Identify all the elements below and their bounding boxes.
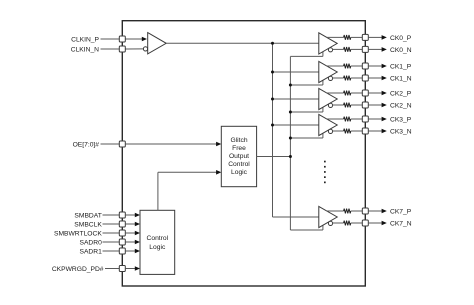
wire clock bus branch to CK3 buffer	[273, 124, 319, 126]
glitch-free output control logic block	[221, 126, 256, 186]
arrowhead SMBCLK into control logic	[135, 222, 140, 227]
arrowhead CKPWRGD_PD# into control logic	[135, 266, 140, 271]
svg-text:Control: Control	[228, 161, 250, 168]
wire CK7_N resistor to pad	[351, 222, 363, 224]
wire CK3_N resistor to pad	[351, 130, 363, 132]
wire CLKIN_P lead	[101, 38, 120, 40]
wire CK1_N pad to arrow	[368, 77, 382, 79]
wire enable stub into CK0 buffer	[322, 52, 324, 57]
wire CK0_N to resistor	[333, 48, 344, 50]
arrowhead CK0_P	[382, 35, 387, 40]
svg-text:Glitch: Glitch	[230, 137, 247, 144]
wire CK7_P pad to arrow	[368, 210, 382, 212]
wire CK3_N pad to arrow	[368, 130, 382, 132]
wire control to glitch vertical	[157, 172, 159, 210]
svg-text:SADR0: SADR0	[79, 239, 102, 246]
wire SMBWRTLOCK lead	[103, 232, 120, 234]
wire enable branch under CK3 buffer	[290, 137, 323, 139]
arrowhead SADR0 into control logic	[135, 240, 140, 245]
wire glitch logic output to enable bus	[257, 156, 291, 158]
wire enable branch under CK1 buffer	[290, 84, 323, 86]
arrowhead CK0_N	[382, 47, 387, 52]
pad CK2_P	[362, 90, 368, 96]
output buffer CK3 (differential driver)	[319, 114, 337, 135]
wire CK2_P to resistor	[327, 92, 344, 94]
pad CKPWRGD_PD#	[119, 266, 125, 272]
svg-text:CK2_P: CK2_P	[390, 90, 412, 97]
wire SADR0 to control logic	[125, 241, 135, 243]
svg-text:CK7_N: CK7_N	[390, 220, 412, 227]
pad SADR1	[119, 248, 125, 254]
resistor (series termination) CK0_N	[344, 47, 351, 52]
arrowhead CK7_P	[382, 209, 387, 214]
junction clock bus tap CK3	[271, 124, 274, 127]
arrowhead SMBDAT into control logic	[135, 213, 140, 218]
wire CK2_N resistor to pad	[351, 104, 363, 106]
output buffer CK7 (differential driver)	[319, 206, 337, 227]
wire CK1_N to resistor	[333, 77, 344, 79]
wire SADR0 lead	[103, 241, 120, 243]
wire CLKIN_P to buffer	[125, 38, 142, 40]
arrowhead CK3_N	[382, 129, 387, 134]
wire SMBCLK to control logic	[125, 223, 135, 225]
arrowhead CLKIN_P into U1	[142, 37, 147, 42]
wire CK2_N pad to arrow	[368, 104, 382, 106]
pad CK7_N	[362, 220, 368, 226]
wire CK2_P pad to arrow	[368, 92, 382, 94]
wire SMBDAT lead	[103, 214, 120, 216]
junction clock bus tap CK1	[271, 71, 274, 74]
resistor (series termination) CK1_N	[344, 76, 351, 81]
chip outline (device boundary)	[122, 21, 365, 286]
svg-text:Free: Free	[232, 145, 246, 152]
wire CK1_N resistor to pad	[351, 77, 363, 79]
wire OE to glitch logic	[125, 143, 216, 145]
svg-text:CK2_N: CK2_N	[390, 102, 412, 109]
svg-text:CK0_P: CK0_P	[390, 35, 412, 42]
wire CK3_P resistor to pad	[351, 118, 363, 120]
wire clock bus branch to CK1 buffer	[273, 71, 319, 73]
svg-text:SADR1: SADR1	[79, 248, 102, 255]
arrowhead CK2_P	[382, 91, 387, 96]
wire CK1_P pad to arrow	[368, 65, 382, 67]
pad OE[7:0]#	[119, 141, 125, 147]
svg-text:CK1_P: CK1_P	[390, 63, 412, 70]
wire CK3_N to resistor	[333, 130, 344, 132]
wire CK7_N pad to arrow	[368, 222, 382, 224]
wire CKPWRGD_PD# lead	[105, 268, 119, 270]
svg-text:Control: Control	[147, 235, 169, 242]
resistor (series termination) CK1_P	[344, 64, 351, 69]
svg-text:CK0_N: CK0_N	[390, 47, 412, 54]
wire enable stub into CK2 buffer	[322, 107, 324, 112]
inversion bubble on CK2_N output	[328, 103, 332, 107]
wire enable branch under CK2 buffer	[290, 111, 323, 113]
wire U1 output to CK0 buffer	[166, 42, 319, 44]
wire CK1_P to resistor	[327, 65, 344, 67]
pad CK3_P	[362, 116, 368, 122]
resistor (series termination) CK3_P	[344, 117, 351, 122]
wire CK2_P resistor to pad	[351, 92, 363, 94]
resistor (series termination) CK0_P	[344, 35, 351, 40]
pad CK1_P	[362, 63, 368, 69]
svg-text:Output: Output	[229, 153, 249, 160]
wire enable branch under CK0 buffer	[290, 55, 323, 57]
svg-text:Logic: Logic	[149, 244, 166, 251]
inversion bubble on CK1_N output	[328, 76, 332, 80]
wire CK2_N to resistor	[333, 104, 344, 106]
resistor (series termination) CK2_N	[344, 103, 351, 108]
junction clock bus tap CK2	[271, 98, 274, 101]
wire CK3_P to resistor	[327, 118, 344, 120]
wire CK3_P pad to arrow	[368, 118, 382, 120]
wire enable stub into CK1 buffer	[322, 80, 324, 85]
svg-text:CK1_N: CK1_N	[390, 75, 412, 82]
pad CLKIN_P	[119, 36, 125, 42]
wire CK1_P resistor to pad	[351, 65, 363, 67]
pad SADR0	[119, 239, 125, 245]
wire SMBCLK lead	[103, 223, 120, 225]
junction enable bus tap CK2	[289, 111, 292, 114]
pad CK3_N	[362, 128, 368, 134]
junction enable bus tap CK3	[289, 137, 292, 140]
resistor (series termination) CK2_P	[344, 91, 351, 96]
wire enable stub into CK3 buffer	[322, 133, 324, 138]
wire SADR1 lead	[103, 250, 120, 252]
wire CK0_N resistor to pad	[351, 48, 363, 50]
pad CK0_N	[362, 46, 368, 52]
input buffer U1 (differential clock receiver)	[148, 33, 167, 54]
output buffer CK1 (differential driver)	[319, 61, 337, 82]
wire CLKIN_N to buffer	[125, 48, 143, 50]
arrowhead CK3_P	[382, 117, 387, 122]
pad SMBWRTLOCK	[119, 230, 125, 236]
svg-text:CLKIN_N: CLKIN_N	[71, 46, 99, 53]
svg-text:Logic: Logic	[231, 169, 248, 176]
inversion bubble on CK3_N output	[328, 129, 332, 133]
inversion bubble on CLKIN_N input of U1	[143, 47, 147, 51]
wire CK0_N pad to arrow	[368, 48, 382, 50]
wire SMBDAT to control logic	[125, 214, 135, 216]
arrowhead SMBWRTLOCK into control logic	[135, 231, 140, 236]
arrowhead CK2_N	[382, 103, 387, 108]
wire clock bus branch to CK7 buffer	[273, 216, 319, 218]
wire CLKIN_N lead	[101, 48, 120, 50]
svg-text:SMBDAT: SMBDAT	[74, 212, 101, 219]
svg-text:CK3_P: CK3_P	[390, 116, 412, 123]
output buffer CK2 (differential driver)	[319, 88, 337, 109]
wire enable bus (vertical)	[289, 57, 291, 231]
wire CKPWRGD_PD# to control logic	[125, 268, 135, 270]
wire CK0_P pad to arrow	[368, 36, 382, 38]
svg-text:SMBCLK: SMBCLK	[74, 221, 102, 228]
svg-text:CK7_P: CK7_P	[390, 208, 412, 215]
inversion bubble on CK0_N output	[328, 48, 332, 52]
pad CK7_P	[362, 208, 368, 214]
arrowhead CK1_P	[382, 64, 387, 69]
wire clock distribution bus (vertical)	[272, 43, 274, 217]
pad CK2_N	[362, 102, 368, 108]
inversion bubble on CK7_N output	[328, 221, 332, 225]
pad SMBCLK	[119, 221, 125, 227]
junction clock bus tap CK0	[271, 42, 274, 45]
svg-text:CK3_N: CK3_N	[390, 128, 412, 135]
pad CK1_N	[362, 75, 368, 81]
wire CK0_P to resistor	[327, 36, 344, 38]
junction enable bus tap CK1	[289, 84, 292, 87]
wire enable stub into CK7 buffer	[322, 225, 324, 230]
junction enable bus join from glitch logic	[289, 155, 292, 158]
ellipsis: channels CK4..CK6 omitted	[324, 161, 326, 163]
resistor (series termination) CK3_N	[344, 129, 351, 134]
arrowhead SADR1 into control logic	[135, 249, 140, 254]
wire CK7_N to resistor	[333, 222, 344, 224]
wire control to glitch horizontal	[158, 171, 217, 173]
control logic block	[140, 210, 175, 274]
wire CK0_P resistor to pad	[351, 36, 363, 38]
pad SMBDAT	[119, 212, 125, 218]
output buffer CK0 (differential driver)	[319, 33, 337, 54]
resistor (series termination) CK7_P	[344, 209, 351, 214]
pad CK0_P	[362, 34, 368, 40]
wire SMBWRTLOCK to control logic	[125, 232, 135, 234]
svg-text:OE[7:0]#: OE[7:0]#	[73, 141, 100, 148]
wire clock bus branch to CK2 buffer	[273, 98, 319, 100]
svg-text:CKPWRGD_PD#: CKPWRGD_PD#	[52, 266, 104, 273]
wire enable branch under CK7 buffer	[290, 229, 323, 231]
wire CK7_P to resistor	[327, 210, 344, 212]
wire SADR1 to control logic	[125, 250, 135, 252]
wire CK7_P resistor to pad	[351, 210, 363, 212]
svg-text:SMBWRTLOCK: SMBWRTLOCK	[54, 230, 102, 237]
wire OE lead	[101, 143, 120, 145]
arrowhead control into glitch logic	[216, 170, 221, 175]
svg-text:CLKIN_P: CLKIN_P	[71, 36, 99, 43]
arrowhead CK7_N	[382, 221, 387, 226]
pad CLKIN_N	[119, 46, 125, 52]
arrowhead CK1_N	[382, 76, 387, 81]
arrowhead OE into glitch logic	[216, 142, 221, 147]
resistor (series termination) CK7_N	[344, 221, 351, 226]
